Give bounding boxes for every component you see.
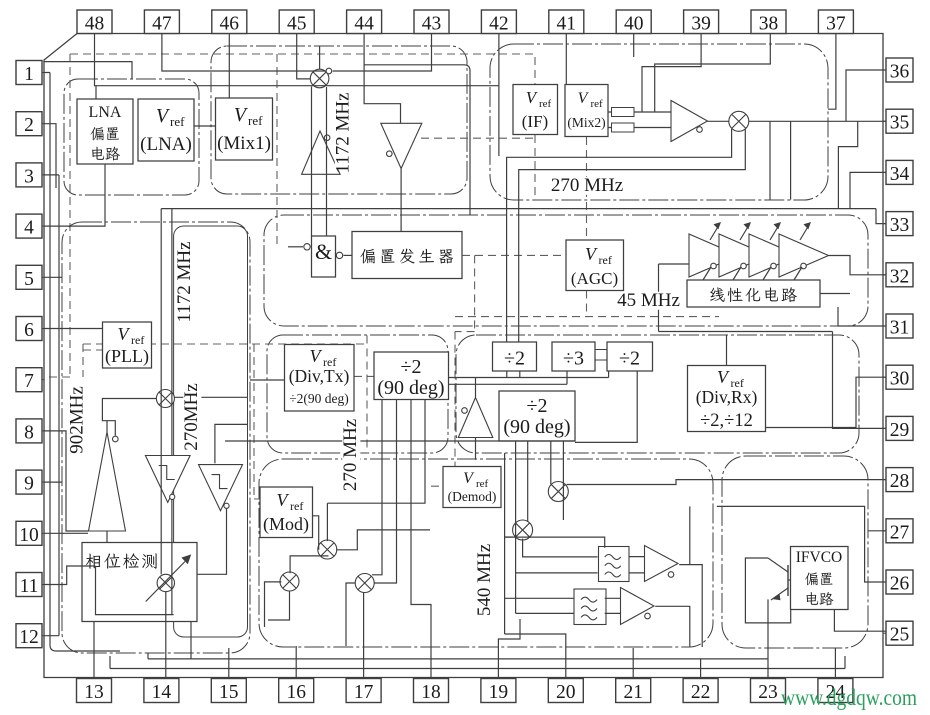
pin 31 [886, 314, 913, 339]
wire pin39 to IF amp input [642, 34, 701, 113]
wire pin23 riser from Q1 emitter [767, 599, 769, 678]
svg-text:31: 31 [890, 318, 910, 339]
inverter B2 (points down) [381, 123, 422, 168]
svg-text:(IF): (IF) [522, 112, 548, 131]
pin 37 [818, 10, 853, 35]
wire pin44 branch right [364, 65, 470, 215]
mixer X3 (PLL 1172/902) [156, 390, 174, 408]
pin 32 [886, 263, 913, 288]
wire X5 top stub [326, 503, 328, 541]
input resistor upper [612, 108, 635, 117]
wire Q1 collector loop [745, 558, 790, 623]
bias generator box [352, 232, 462, 279]
svg-text:LNA: LNA [89, 104, 122, 121]
wire X6 left out [265, 582, 282, 627]
svg-text:÷2: ÷2 [401, 356, 422, 378]
pin 1 stub [42, 72, 44, 74]
Vref(AGC) box [566, 240, 624, 291]
pin 28 stub [883, 479, 886, 481]
svg-text:5: 5 [24, 269, 34, 290]
svg-text:270MHz: 270MHz [181, 383, 202, 451]
wire bottom long row 2 [110, 656, 845, 669]
wire r1 tap to F2 lower [516, 612, 575, 614]
svg-text:(Div,Tx): (Div,Tx) [289, 366, 350, 386]
gain arrow on AGC stage 4 [800, 225, 809, 240]
wire div2#2 to Rx90 box [575, 371, 637, 442]
wire pin9 stub [44, 481, 62, 483]
Vref(IF) box [513, 85, 558, 135]
svg-text:9: 9 [24, 474, 34, 495]
wire div2#1 riser A [506, 371, 508, 378]
label 1172 MHz (PLL) [174, 241, 195, 322]
wire F1 to B6 lower [629, 572, 645, 574]
svg-text:35: 35 [890, 113, 910, 134]
wire Tx quad v1 to X7 top [372, 400, 382, 575]
svg-text:13: 13 [84, 682, 104, 703]
wire IFVCO to pin25 [834, 610, 886, 632]
IFVCO bias circuit box [791, 547, 849, 610]
wire X9 left to 540 rail [505, 536, 513, 538]
wire pin31 to linearizer [838, 307, 886, 326]
gain arrow on AGC stage 2 [740, 225, 749, 240]
pin 21 [616, 679, 651, 704]
svg-text:37: 37 [826, 14, 846, 35]
svg-text:ref: ref [248, 113, 263, 128]
svg-text:IFVCO: IFVCO [796, 549, 843, 566]
pin 44 [347, 10, 382, 35]
svg-text:30: 30 [890, 369, 910, 390]
mixer X7 (Mod out) [355, 574, 374, 593]
Vref(Mix1) box [216, 98, 273, 160]
label 45 MHz [617, 290, 680, 311]
svg-text:39: 39 [691, 14, 711, 35]
wire amp B6 out down [679, 565, 702, 647]
wire Tx quad v2 to X7 [374, 400, 396, 584]
wire schmitt S2 feed [215, 424, 248, 463]
pin 42 [481, 10, 516, 35]
pin 22 [683, 679, 718, 704]
svg-text:(AGC): (AGC) [571, 269, 618, 288]
schmitt trigger S2 (points down) [199, 465, 243, 511]
wire X3 right to inner box [174, 396, 248, 398]
pin 23 [751, 679, 786, 704]
wire Rx quad r4 [562, 441, 564, 520]
mixer X8 (Demod I) [548, 482, 568, 502]
wire Vref(LNA)-Vref(Mix1) link [194, 125, 216, 127]
wire pin29 riser [833, 332, 887, 429]
mixer X4 (phase detector) [157, 574, 174, 591]
wire X6 bottom [268, 591, 290, 620]
svg-text:270 MHz: 270 MHz [551, 175, 623, 196]
svg-text:29: 29 [890, 420, 910, 441]
wire pin19 staircase [498, 619, 520, 679]
svg-text:÷2: ÷2 [619, 348, 640, 370]
wire 270MHz IF return lower [519, 129, 746, 342]
wire pin43 to mixer X1 bubble [333, 34, 432, 72]
wire pin5 stub [44, 276, 62, 278]
wire mixer X2 output drop A [769, 121, 771, 199]
label 270 MHz (Tx) [340, 419, 361, 491]
pin 29 stub [883, 427, 886, 429]
wire phase box to pin13 [93, 622, 95, 678]
wire Vref(Mod) to X5 left [312, 516, 319, 550]
wire pin3 to pin12 rail [44, 175, 59, 636]
pin 24 [818, 679, 853, 704]
label 270MHz (PLL) [181, 383, 202, 451]
svg-text:ref: ref [290, 499, 303, 513]
wire mixer X1 to amp B1 (pair left) [311, 87, 313, 237]
wire inverter B2 to bias generator top [400, 169, 402, 232]
wire pin17 riser to X7 [363, 593, 365, 679]
pin 14 [144, 679, 179, 704]
svg-text:(Mix2): (Mix2) [567, 115, 605, 130]
pin 18 [414, 679, 449, 704]
svg-text:(Demod): (Demod) [448, 489, 497, 504]
wire pin42 into IF return line [498, 34, 500, 157]
pin 35 stub [883, 120, 886, 122]
svg-text:÷2: ÷2 [527, 395, 548, 417]
pin 34 [886, 160, 913, 185]
wire pin24 riser [834, 648, 836, 679]
svg-text:47: 47 [152, 14, 172, 35]
pin 28 [886, 468, 913, 493]
wire X9 bottom to F1 upper [523, 539, 598, 557]
Vref(Demod) box [443, 467, 501, 508]
wire Vcc drop into LNA bias [95, 86, 97, 99]
wire pin38 to IF amp input [655, 34, 771, 112]
Vref(PLL) box [103, 322, 152, 368]
wire linearizer taps [703, 267, 802, 280]
wire mixer X1 top up [319, 46, 321, 69]
svg-text:6: 6 [24, 320, 34, 341]
svg-text:33: 33 [890, 215, 910, 236]
wire IF amp to mixer X2 [708, 120, 729, 122]
pin 12 [16, 624, 42, 649]
svg-text:45: 45 [287, 14, 307, 35]
wire pin2 jog [44, 124, 56, 188]
LNA bias circuit box [77, 99, 133, 164]
pin 30 [886, 365, 913, 390]
wire schmitt S1 out through phase box [171, 500, 173, 615]
wire pin8 to amp B4 [44, 431, 89, 531]
label 540 MHz [474, 544, 495, 616]
bandpass filter F2 [574, 589, 606, 625]
pin 39 [684, 10, 719, 35]
AND gate box [312, 236, 336, 277]
wire 540 rail tap to F2 upper [505, 597, 575, 599]
wire pin22 riser [700, 659, 702, 679]
pin 36 [886, 58, 913, 83]
wire linearizer right link [820, 293, 850, 295]
wire amp B6 out up tap [689, 506, 691, 564]
wire Q1 base to IFVCO box [788, 579, 791, 581]
wire X6 top link [290, 556, 328, 573]
pin 34 stub [883, 171, 886, 173]
label 902MHz [67, 386, 88, 454]
wire pin11 to phase detect box [44, 566, 96, 585]
svg-text:(Div,Rx): (Div,Rx) [696, 387, 758, 407]
pin 10 stub [42, 532, 44, 534]
linearization circuit box [687, 280, 820, 307]
pin 15 [211, 679, 246, 704]
svg-text:(90 deg): (90 deg) [377, 377, 444, 399]
module boundary: LNA block [64, 79, 199, 195]
svg-text:7: 7 [24, 371, 34, 392]
mixer X9 (Demod Q) [513, 520, 533, 540]
pin 8 [16, 419, 42, 444]
Vref(LNA) box [138, 99, 194, 161]
wire amp B4 base into phase box [106, 531, 108, 543]
svg-text:18: 18 [421, 682, 441, 703]
IF amp B3 (points right) [671, 101, 708, 142]
AGC amp chain stage 1 [689, 234, 739, 277]
pin 1 [16, 61, 42, 86]
wire 270MHz IF return upper [507, 129, 732, 342]
wire into AND gate input [288, 246, 303, 248]
wire resistor to Mix2 lower [608, 127, 671, 129]
wire phase box bottom tap [190, 622, 192, 659]
wire pin16 riser [295, 646, 297, 679]
svg-text:25: 25 [890, 625, 910, 646]
svg-text:(Mix1): (Mix1) [217, 133, 271, 154]
wire VCO pair right (to S1) [171, 209, 173, 456]
wire pin30 to Vref(Div,Rx) [766, 377, 887, 427]
pin 11 [16, 573, 42, 598]
svg-text:4: 4 [24, 218, 34, 239]
pin 3 [16, 163, 42, 188]
wire long row at 331.5 [659, 331, 833, 333]
pin 41 [549, 10, 584, 35]
wire mixer line zigzag down [838, 121, 857, 208]
dashed Vref distribution net [44, 54, 719, 499]
transistor Q1 (IFVCO) [768, 558, 788, 600]
wire mixer X2 output drop B [790, 121, 792, 199]
pin 36 stub [883, 69, 886, 71]
svg-text:902MHz: 902MHz [67, 386, 88, 454]
wire schmitt S2 out to phase box [197, 508, 227, 574]
divide-by-2 (90 deg) Rx box [499, 391, 575, 441]
connector between div3 and div2 [595, 350, 607, 361]
wire amp B5 out to bus [475, 378, 477, 398]
svg-text:17: 17 [354, 682, 374, 703]
svg-text:2: 2 [24, 115, 34, 136]
buffer amp B1 (1172 MHz, points up) [302, 131, 341, 174]
svg-text:3: 3 [24, 166, 34, 187]
pin 25 stub [883, 632, 886, 634]
wire mixer X2 to pin35 [749, 120, 886, 122]
svg-text:270 MHz: 270 MHz [340, 419, 361, 491]
wire into Vref(Div,Tx) [250, 379, 285, 381]
wire chamfer-corner run [44, 62, 132, 79]
pin 2 [16, 112, 42, 137]
AND gate output bubble [336, 252, 342, 258]
pin 2 stub [42, 123, 44, 125]
svg-text:48: 48 [85, 14, 105, 35]
svg-text:ref: ref [599, 253, 612, 267]
pin 16 [279, 679, 314, 704]
wire pin48 run [95, 34, 499, 86]
wire pin26 long [717, 506, 886, 582]
wire div2#1 riser B [519, 371, 521, 378]
wire X5 right jog [336, 530, 430, 550]
wire resistor to Mix2 upper [608, 111, 671, 113]
pin 5 stub [42, 276, 44, 278]
wire Tx quad v4 to X5 top [327, 400, 425, 504]
svg-text:÷2: ÷2 [504, 348, 525, 370]
module boundary: Rx divider block [456, 335, 859, 453]
wire X3 left to amp B4 bubble [102, 399, 156, 436]
svg-text:34: 34 [890, 164, 910, 185]
pin 8 stub [42, 430, 44, 432]
svg-text:www.dgdqw.com: www.dgdqw.com [781, 685, 917, 710]
wire F2 to B7 upper [605, 597, 621, 599]
pin 43 [414, 10, 449, 35]
svg-text:40: 40 [624, 14, 644, 35]
wire pin44 to inverter B2 top [364, 34, 400, 124]
divide-by-2 box second [607, 342, 653, 371]
pin 4 stub [42, 225, 44, 227]
svg-text:20: 20 [556, 682, 576, 703]
pin 30 stub [883, 376, 886, 378]
svg-text:8: 8 [24, 422, 34, 443]
Vref(Div,Rx) box [688, 366, 766, 432]
pin 45 [279, 10, 314, 35]
svg-text:36: 36 [890, 62, 910, 83]
AGC amp chain stage 4 [779, 234, 829, 277]
pin 9 [16, 470, 42, 495]
pin 26 stub [883, 581, 886, 583]
svg-text:(PLL): (PLL) [105, 346, 149, 367]
svg-text:&: & [315, 239, 332, 264]
wire F2 to B7 lower [605, 612, 621, 614]
pin 6 [16, 317, 42, 342]
amp B4 (902MHz, points up) [89, 432, 126, 531]
AGC amp chain stage 2 [719, 234, 769, 277]
svg-text:43: 43 [422, 14, 442, 35]
gain arrow on AGC stage 3 [770, 225, 779, 240]
wire VCO pair left (through X3 to X4) [160, 209, 162, 575]
svg-text:23: 23 [758, 682, 778, 703]
pin 13 [77, 679, 112, 704]
svg-text:27: 27 [890, 522, 910, 543]
module boundary: bias+AGC+amp-chain block [264, 215, 868, 326]
wire pin34 staircase to 1172 line [850, 172, 886, 208]
svg-text:12: 12 [19, 627, 39, 648]
pin 27 [886, 519, 913, 544]
pin 33 [886, 212, 913, 237]
gain arrow on AGC stage 1 [710, 225, 719, 240]
wire phase box internal L [96, 566, 174, 615]
pin 7 [16, 368, 42, 393]
wire ampchain input [659, 264, 690, 332]
svg-text:1172 MHz: 1172 MHz [333, 92, 354, 173]
pin 6 stub [42, 328, 44, 330]
svg-text:46: 46 [220, 14, 240, 35]
wire pin37 to module edge [828, 34, 836, 110]
wire F1 to B6 upper [629, 556, 645, 558]
label 1172 MHz (top) [333, 92, 354, 173]
pin 27 stub [883, 530, 886, 532]
divide-by-3 box [552, 342, 595, 371]
wire amp B4 output up [106, 421, 108, 432]
svg-text:ref: ref [591, 98, 604, 110]
wire amp B5 base down [475, 438, 477, 460]
wire quad bus h1 [449, 371, 609, 378]
pin 5 [16, 265, 42, 290]
svg-text:28: 28 [890, 471, 910, 492]
AGC amp chain stage 3 [749, 234, 799, 277]
mixer X1 inline bubble [326, 68, 332, 74]
mixer X2 (IF) [729, 111, 749, 131]
svg-text:38: 38 [759, 14, 779, 35]
wire pin41 to Vref(Mix2) [565, 34, 567, 85]
module boundary: IF/Mix2 block [490, 44, 828, 200]
divide-by-2 (90 deg) Tx box [374, 352, 449, 400]
input resistor lower [612, 123, 635, 132]
pin 11 stub [42, 584, 44, 586]
module boundary: Tx divider block [267, 335, 448, 453]
svg-text:41: 41 [557, 14, 577, 35]
svg-text:14: 14 [152, 682, 172, 703]
variable arrow through phase detector mixer [146, 562, 185, 602]
wire 540 rail tap to F1 top [505, 537, 605, 548]
wire pin45 to mixer X1 left [297, 34, 311, 79]
mixer X6 (Mod Q) [280, 572, 299, 591]
pin 35 [886, 109, 913, 134]
divide-by-2 box first [493, 342, 537, 371]
wire pin1 long left rail [44, 73, 120, 652]
svg-text:ref: ref [131, 333, 144, 347]
svg-text:26: 26 [890, 574, 910, 595]
wire pin40 down [633, 34, 635, 58]
wire pin21 riser [632, 648, 634, 679]
mixer X5 (Mod I) [318, 540, 337, 559]
svg-text:540 MHz: 540 MHz [474, 544, 495, 616]
svg-text:21: 21 [623, 682, 643, 703]
svg-text:16: 16 [286, 682, 306, 703]
pin 32 stub [883, 274, 886, 276]
svg-text:15: 15 [219, 682, 239, 703]
wire Tx quad v3 to pin18 [411, 400, 431, 679]
wire amp B7 out [655, 606, 690, 647]
wire mixer X1 to amp B1 (pair right) [326, 87, 328, 236]
svg-text:ref: ref [539, 98, 552, 110]
demod amp B7 (points right) [621, 588, 655, 625]
wire ampchain out to pin32 [829, 256, 887, 275]
wire Rx quad r2 to X9 [527, 441, 529, 522]
wire LNA bias to pin4 [44, 164, 105, 226]
amp B5 (540MHz, points up) [458, 398, 493, 438]
svg-text:÷2(90 deg): ÷2(90 deg) [289, 391, 349, 406]
pin 46 [212, 10, 247, 35]
svg-text:÷3: ÷3 [563, 348, 584, 370]
Vref(Mod) box [260, 487, 313, 538]
wire quad bus h2 [449, 383, 568, 385]
wire pin36 to mixer line [846, 70, 886, 121]
pin 29 [886, 416, 913, 441]
svg-text:45 MHz: 45 MHz [617, 290, 680, 311]
demod amp B6 (points right) [645, 546, 679, 582]
Vref(Mix2) box [565, 85, 608, 137]
pin 31 stub [883, 325, 886, 327]
Vref(Div,Tx) box [285, 345, 355, 412]
svg-text:(90 deg): (90 deg) [503, 416, 570, 438]
wire AND output to bias generator [344, 254, 353, 256]
wire pin15 riser [228, 648, 230, 679]
wire div3 riser [566, 371, 568, 384]
pin 9 stub [42, 481, 44, 483]
svg-text:19: 19 [489, 682, 509, 703]
